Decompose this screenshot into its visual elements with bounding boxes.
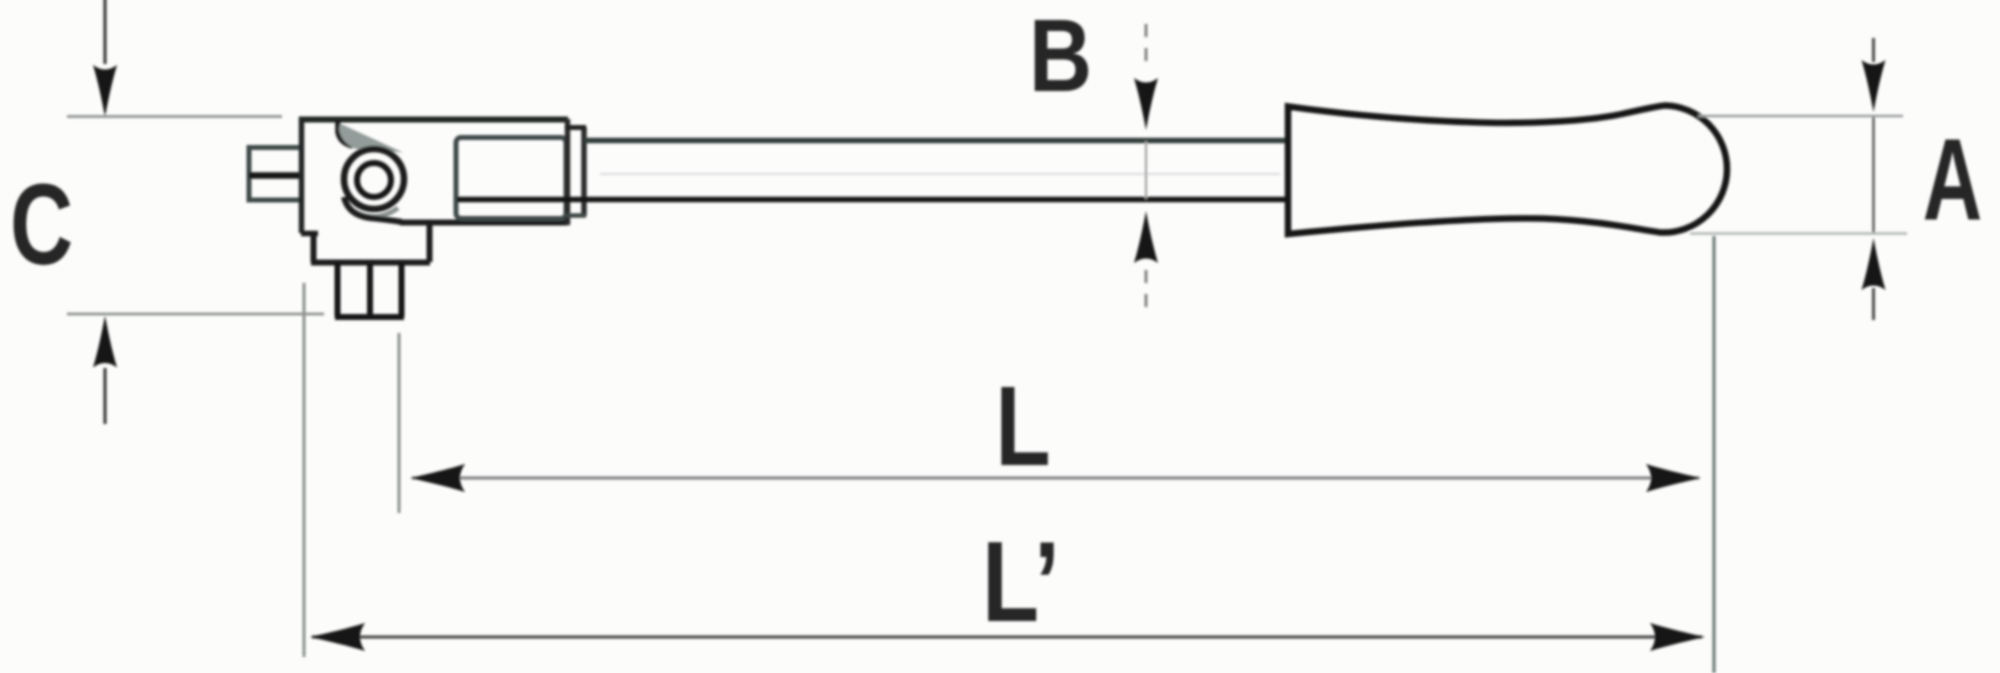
A lower dim line: [1872, 288, 1875, 320]
B inner thin line: [1145, 141, 1147, 199]
svg-text:C: C: [10, 160, 73, 288]
B lower dashed line: [1145, 270, 1148, 308]
B down arrow: [1134, 78, 1158, 130]
A top extension line: [1698, 115, 1903, 118]
size window (inner rectangle): [456, 138, 566, 219]
handle: [1288, 106, 1727, 235]
yoke notch (top): [338, 121, 353, 146]
svg-text:L: L: [995, 362, 1050, 489]
square drive tang (left, side view): [249, 148, 300, 201]
C bottom extension line: [67, 313, 324, 316]
shaft top line: [584, 138, 1289, 144]
L left arrow: [410, 464, 465, 492]
right extension line (shared by L and L'): [1712, 236, 1715, 673]
A inner thin line: [1872, 116, 1874, 233]
L' left arrow: [310, 623, 365, 651]
head left edge: [299, 117, 305, 233]
L' right arrow: [1650, 623, 1705, 651]
L dimension line: [412, 476, 1699, 479]
C upper dim line: [103, 0, 106, 64]
head top edge: [299, 117, 568, 123]
svg-text:A: A: [1923, 116, 1982, 245]
pivot boss outer circle: [344, 149, 404, 209]
L' left extension line: [303, 283, 306, 657]
L right arrow: [1646, 464, 1701, 492]
A upper dim line: [1872, 38, 1875, 62]
A bottom extension line: [1690, 232, 1907, 235]
square drive mid line: [367, 264, 373, 315]
svg-text:L’: L’: [982, 519, 1060, 646]
C top extension line: [67, 115, 282, 118]
B upper dashed line: [1145, 24, 1148, 66]
gray shade crescent below boss: [348, 207, 398, 217]
yoke lower arm: [344, 197, 402, 222]
pivot pin hole: [357, 163, 391, 197]
svg-text:B: B: [1029, 0, 1092, 114]
L left extension line: [398, 333, 401, 513]
gray shade wedge above pivot boss: [339, 124, 403, 153]
shaft bottom line: [457, 197, 1290, 203]
B up arrow: [1134, 211, 1158, 263]
tang mid line: [249, 172, 300, 179]
A up arrow: [1862, 238, 1886, 290]
collar ring at shaft joint: [565, 119, 571, 225]
head block bottom edge: [400, 220, 568, 226]
L' dimension line: [312, 635, 1702, 638]
lower block (drive housing): [301, 231, 318, 237]
A down arrow: [1862, 60, 1886, 112]
C lower dim line: [103, 368, 106, 424]
faint shaft centerline: [600, 173, 1280, 175]
C up arrow: [93, 316, 117, 368]
square drive (bottom): [335, 263, 404, 317]
C down arrow: [93, 65, 117, 117]
